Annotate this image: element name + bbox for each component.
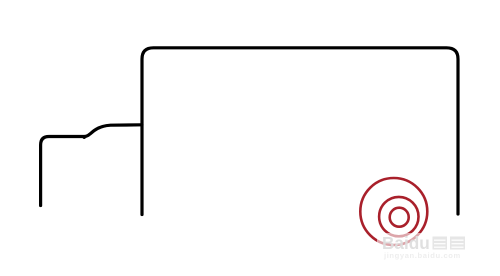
wheel hub circle — [390, 208, 409, 227]
wheel middle circle — [379, 197, 418, 236]
watermark translucent backing — [377, 233, 470, 259]
watermark CJK glyph block 2 (验) — [450, 237, 465, 250]
watermark CJK glyph block 1 (经) — [433, 237, 448, 250]
truck body outline (rounded-top rectangle, open bottom) — [142, 48, 458, 215]
truck hood/cab line — [41, 125, 142, 206]
pen overlap blob at hood junction — [83, 136, 86, 139]
svg-text:jingyan.baidu.com: jingyan.baidu.com — [383, 251, 461, 260]
wheel outer circle — [360, 178, 427, 245]
